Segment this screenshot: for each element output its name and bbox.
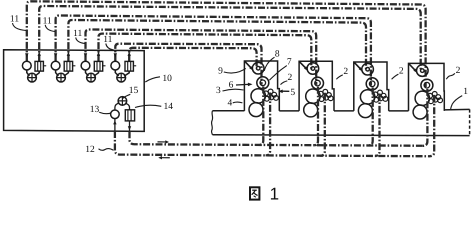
return pipe A of unit 3 to upper collector [368,88,373,146]
blanket cylinder 4 of unit 2 [304,103,318,117]
ink fountain roller 8 of unit 4 [417,65,429,77]
supply pipe 11 group4 feed line to unit 1 [115,44,261,85]
svg-text:1: 1 [270,184,279,201]
drain pipe from 13 to lower collector line [115,131,430,156]
plate cylinder 4a of unit 3 [360,90,374,104]
flow arrow left on lower collector [162,157,170,159]
gauge circle group2 on line 11 [51,61,60,70]
press bed 1 outline [213,110,245,112]
valve square group1 [35,61,43,71]
gauge circle group4 on line 11 [111,61,120,70]
arrow down into gauge group1 [25,53,28,57]
svg-text:9: 9 [218,66,223,76]
svg-text:2: 2 [456,66,461,76]
return pipe B of unit 1 to lower collector [266,93,271,156]
pump circle-plus group1 [27,70,30,76]
svg-text:2: 2 [288,73,293,83]
duct arrow 9 of unit 1 [245,62,251,68]
return pipe B of unit 4 to lower collector [430,95,435,156]
ink fountain roller 8 of unit 2 [307,63,319,75]
svg-text:2: 2 [399,66,404,76]
pump circle-plus group3 [86,70,89,76]
caption figure glyph (drawn) [250,187,259,199]
printing unit 2 frame [299,61,334,111]
arrow up out of valve group3 [97,52,100,56]
svg-text:14: 14 [163,102,173,112]
arrow up out of valve group4 [128,52,131,56]
return pipe A of unit 4 to upper collector [423,89,428,146]
arrow up out of valve group2 [67,52,70,56]
return pipe 11 group2 line to unit 3 fountain [68,20,366,69]
flow arrow right on upper collector [158,141,166,143]
transfer roller 7 of unit 1 [257,77,269,89]
arrow down into gauge group3 [84,53,87,57]
bed top between units [279,110,299,112]
svg-text:3: 3 [216,86,221,96]
pump circle-plus group4 [115,70,118,76]
plate cylinder 4a of unit 4 [415,91,429,105]
drain pipe from 14 to upper collector line [130,131,423,146]
svg-text:7: 7 [287,58,292,68]
printing unit 1 frame [244,61,279,111]
pump circle-plus group2 [56,70,59,76]
roller cluster 5 of unit 1 [264,91,269,96]
return pipe A of unit 2 to upper collector [314,87,319,146]
cabinet box 10 [4,50,145,132]
arrow down into gauge group4 [114,53,117,57]
valve square group4 [125,61,133,71]
roller cluster 5 of unit 3 [373,92,378,97]
return pipe 11 group3 line to unit 2 fountain [99,34,312,69]
svg-text:11: 11 [103,35,112,45]
press bed right dashed edge [469,109,471,135]
duct arrow 9 of unit 2 [300,62,306,68]
svg-text:13: 13 [90,105,100,115]
supply pipe 11 group3 feed line to unit 2 [86,30,317,85]
gauge circle 13 [111,110,120,119]
return pipe A of unit 1 to upper collector [259,87,264,146]
roller cluster 5 of unit 2 [318,91,323,96]
duct arrow 9 of unit 4 [409,64,415,70]
valve square 14 [125,110,134,121]
return pipe B of unit 2 to lower collector [320,93,325,156]
svg-text:10: 10 [162,74,172,84]
transfer roller 7 of unit 2 [312,77,324,89]
roller cluster 5 of unit 4 [428,93,433,98]
svg-text:12: 12 [85,145,95,155]
return pipe B of unit 3 to lower collector [375,94,380,156]
blanket cylinder 4 of unit 1 [249,103,263,117]
bed top between units [389,110,409,112]
transfer roller 7 of unit 3 [366,78,378,90]
gauge circle group3 on line 11 [81,61,90,70]
svg-text:8: 8 [275,49,280,59]
return pipe 11 group4 line to unit 1 fountain [129,48,256,69]
pump circle-plus 15 [115,103,119,110]
plate cylinder 4a of unit 1 [251,89,265,103]
arrow up out of valve group1 [38,52,41,56]
duct arrow 9 of unit 3 [354,63,360,69]
valve square group3 [94,61,102,71]
ink fountain roller 8 of unit 1 [252,62,264,74]
gauge circle group1 on line 11 [22,61,31,70]
arrow down on line from 14 [129,121,131,131]
bed top right of unit 4 [444,108,469,111]
blanket cylinder 4 of unit 3 [358,104,372,118]
bed top between units [334,110,354,112]
ink fountain roller 8 of unit 3 [362,63,374,75]
supply pipe 11 group1 feed line to unit 4 [27,1,426,87]
blanket cylinder 4 of unit 4 [413,105,427,119]
printing unit 3 frame [354,62,389,111]
svg-text:1: 1 [463,87,468,97]
svg-text:5: 5 [290,88,295,98]
svg-text:4: 4 [228,98,233,108]
valve square group2 [64,61,72,71]
svg-text:11: 11 [43,16,52,26]
svg-text:11: 11 [10,15,19,25]
arrow down into gauge group2 [54,53,57,57]
arrow up on line from 13 [114,119,116,131]
printing unit 4 frame [409,63,445,111]
svg-text:11: 11 [73,29,82,39]
transfer roller 7 of unit 4 [421,79,433,91]
svg-text:2: 2 [343,67,348,77]
return pipe 11 group1 line to unit 4 fountain [39,6,421,71]
supply pipe 11 group2 feed line to unit 3 [56,16,371,86]
plate cylinder 4a of unit 2 [306,89,320,103]
